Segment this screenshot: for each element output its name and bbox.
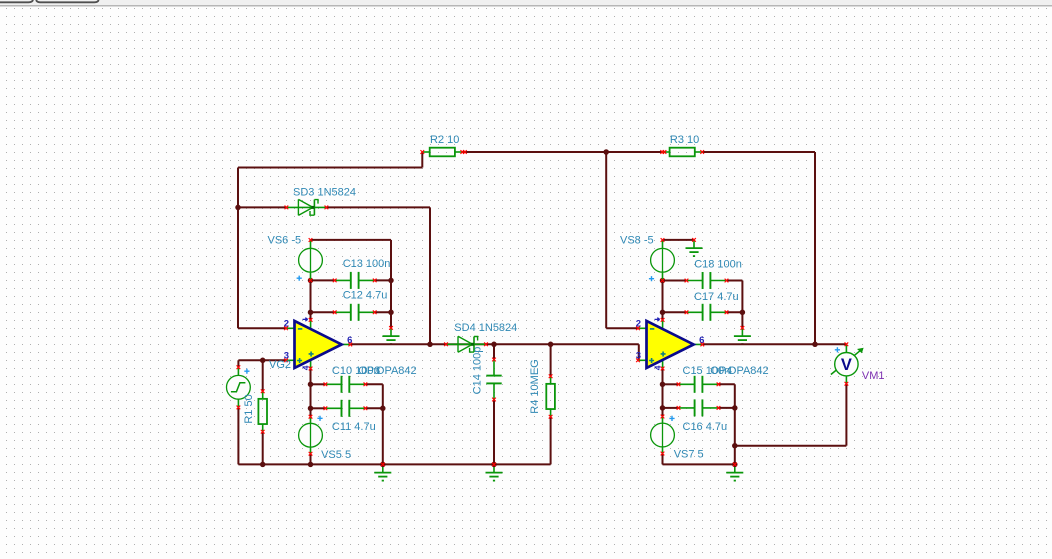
svg-text:VS6 -5: VS6 -5	[268, 235, 302, 247]
svg-text:VM1: VM1	[862, 370, 885, 382]
svg-text:C12 4.7u: C12 4.7u	[343, 290, 388, 302]
svg-text:C17 4.7u: C17 4.7u	[694, 291, 739, 303]
svg-text:SD4 1N5824: SD4 1N5824	[454, 322, 517, 334]
svg-text:VG2: VG2	[269, 359, 291, 371]
svg-text:VS8 -5: VS8 -5	[620, 235, 654, 247]
svg-text:C16 4.7u: C16 4.7u	[683, 421, 728, 433]
svg-text:C18 100n: C18 100n	[694, 258, 742, 270]
svg-text:VS7 5: VS7 5	[674, 448, 704, 460]
svg-text:R2 10: R2 10	[430, 134, 459, 146]
svg-text:OPA842: OPA842	[728, 365, 769, 377]
svg-text:C11 4.7u: C11 4.7u	[332, 421, 376, 433]
svg-text:R1 50: R1 50	[243, 394, 255, 423]
svg-text:C14 100p: C14 100p	[472, 347, 484, 395]
svg-text:R3 10: R3 10	[670, 134, 699, 146]
svg-text:R4 10MEG: R4 10MEG	[529, 359, 541, 413]
svg-text:V: V	[841, 356, 852, 374]
svg-text:OPA842: OPA842	[376, 365, 417, 377]
svg-text:SD3 1N5824: SD3 1N5824	[293, 186, 356, 198]
svg-text:VS5 5: VS5 5	[321, 449, 351, 461]
svg-text:C13 100n: C13 100n	[343, 258, 391, 270]
